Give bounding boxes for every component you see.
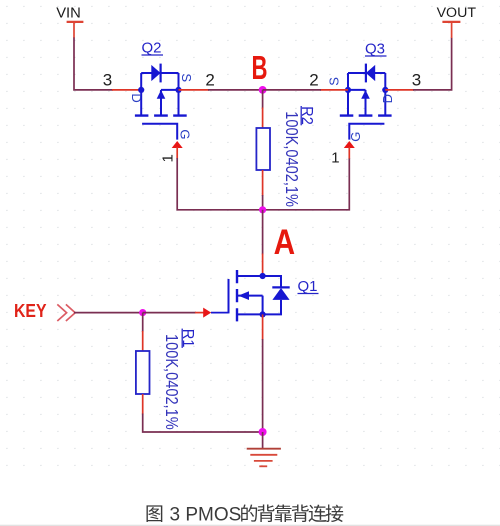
gate plate of Q2 [142, 124, 177, 140]
pin junction dot Q3 drain [382, 87, 388, 93]
source stub of Q1 [237, 313, 263, 315]
pin junction dot Q1 drain [260, 273, 266, 279]
wire Q1 source to ground junction [262, 339, 264, 432]
pin junction dot Q3 source [345, 87, 351, 93]
wire R1 to ground rail [143, 414, 263, 433]
svg-text:S: S [179, 73, 194, 82]
pin R2.1 [262, 108, 264, 129]
pin Q1 source [262, 314, 264, 340]
svg-text:VIN: VIN [56, 6, 81, 22]
svg-text:Q1: Q1 [298, 278, 318, 295]
svg-text:A: A [274, 223, 296, 262]
gate plate of Q3 [349, 124, 384, 140]
transistor Q1 [211, 270, 290, 321]
svg-text:Q3: Q3 [365, 41, 385, 58]
svg-text:Q2: Q2 [142, 40, 162, 57]
designator R1 [179, 329, 197, 348]
svg-text:2: 2 [205, 70, 214, 89]
wire Q2 source to node B [208, 89, 263, 91]
wire junction to R1 [142, 313, 144, 332]
pin Q3.1 (gate pin with arrow) [344, 141, 355, 159]
pin Q3.2 (source pin) [320, 89, 348, 91]
svg-text:D: D [129, 93, 144, 102]
svg-text:3: 3 [412, 70, 421, 89]
designator Q3 [365, 41, 387, 58]
transistor Q3 [340, 64, 392, 140]
pin R1.1 [142, 331, 144, 351]
power port VIN [56, 6, 83, 38]
pin Q2.1 (gate pin with arrow) [172, 141, 183, 159]
bulk arrow of Q2 [157, 90, 166, 99]
channel bars of Q2 [135, 114, 187, 116]
junction node A [259, 206, 266, 213]
pin Q1 drain [262, 254, 264, 277]
svg-text:VOUT: VOUT [437, 5, 477, 21]
svg-text:S: S [327, 77, 342, 86]
svg-text:100K,0402,1%: 100K,0402,1% [161, 334, 181, 430]
svg-text:KEY: KEY [14, 301, 47, 321]
drain stub of Q1 [237, 275, 263, 277]
resistor R1 [136, 351, 150, 394]
pin junction dot Q1 source [260, 311, 266, 317]
wire junction to Q1 gate pin [143, 312, 196, 314]
transistor Q2 [135, 64, 187, 140]
pin Q2.3 (drain pin) [112, 89, 141, 91]
wire Q3 drain to VOUT [413, 38, 452, 90]
svg-text:2: 2 [309, 70, 318, 89]
svg-text:1: 1 [331, 149, 339, 166]
wire VIN to Q2 drain pin [74, 38, 113, 90]
ground [247, 449, 281, 467]
svg-text:100K,0402,1%: 100K,0402,1% [282, 111, 302, 207]
designator Q1 [298, 278, 319, 295]
svg-text:3: 3 [103, 70, 112, 89]
wire node A to Q1 drain [262, 210, 264, 255]
wire R2 to gate rail [262, 195, 264, 210]
junction node B [259, 86, 267, 94]
wire to ground symbol [262, 432, 264, 448]
pin Q3.3 (drain pin) [385, 89, 414, 91]
pin Q2.2 (source pin) [179, 89, 210, 91]
body diode of Q1 [263, 276, 281, 314]
bulk stub of Q1 with arrow [237, 295, 263, 297]
svg-text:G: G [177, 129, 192, 139]
wire node B to R2 [262, 90, 264, 109]
bulk arrow of Q3 [361, 90, 370, 99]
channel bars of Q1 [236, 270, 238, 321]
svg-text:3 PMOS: 3 PMOS [170, 505, 242, 526]
designator Q2 [142, 40, 164, 57]
bottom border [0, 524, 500, 526]
body diode of Q3 [366, 65, 375, 81]
pin junction dot Q2 drain [138, 87, 144, 93]
pin R1.2 [142, 394, 144, 415]
svg-text:1: 1 [160, 154, 177, 162]
body diode of Q2 [151, 65, 160, 81]
svg-text:G: G [348, 132, 363, 142]
designator R2 [298, 106, 316, 125]
resistor R2 [256, 128, 270, 170]
power port VOUT [437, 5, 477, 38]
gate plate of Q1 [228, 279, 230, 313]
junction R1 top [139, 309, 146, 316]
pin R2.2 [262, 170, 264, 196]
caption text 图 3 PMOS的背靠背连接 [146, 504, 343, 525]
junction ground node [259, 428, 267, 436]
svg-text:R1: R1 [179, 329, 197, 348]
svg-text:B: B [252, 49, 268, 86]
wire KEY to R1 junction [74, 312, 143, 314]
port KEY [14, 301, 75, 321]
pin junction dot Q2 source [175, 87, 181, 93]
wire node B to Q3 source [263, 89, 321, 91]
channel bars of Q3 [340, 114, 392, 116]
svg-text:D: D [380, 94, 395, 103]
wire gate rail (Q2 gate to Q3 gate) [177, 158, 349, 210]
pin Q1 gate with arrow [195, 308, 211, 318]
